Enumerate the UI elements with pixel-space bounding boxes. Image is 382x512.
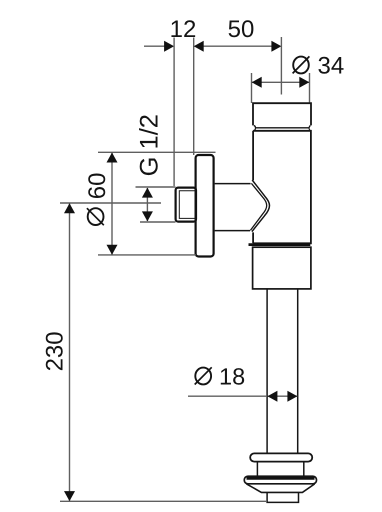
valve body: [253, 131, 311, 244]
arrow d60 down: [107, 245, 118, 255]
outlet collar: [267, 492, 298, 502]
extension line flange bottom: [98, 254, 196, 256]
dim line 230: [69, 203, 71, 501]
arrow G12 up: [142, 188, 153, 198]
flange: [196, 155, 214, 257]
arrow d34 right: [299, 77, 309, 88]
svg-text:34: 34: [318, 53, 345, 80]
extension line thread top: [136, 186, 176, 188]
cap ring lower: [254, 129, 311, 131]
svg-text:230: 230: [41, 331, 68, 371]
arrow d34 left: [252, 77, 262, 88]
dim line 50: [203, 45, 272, 47]
arrow 50 right: [271, 41, 281, 52]
extension line bottom: [60, 500, 267, 502]
spreader cone: [247, 484, 315, 493]
body seam: [249, 243, 311, 246]
spreader neck right: [303, 462, 305, 477]
extension line flange top: [98, 151, 216, 153]
arrow G12 down: [142, 211, 153, 221]
dim line d34: [252, 81, 310, 83]
svg-text:G 1/2: G 1/2: [136, 114, 164, 176]
inlet cap: [253, 103, 311, 125]
arrow 50 left: [194, 41, 204, 52]
cap ring upper: [254, 126, 311, 128]
dim label diameter 34: [293, 53, 345, 80]
spreader ring 1: [250, 453, 312, 461]
outlet pipe left wall: [266, 289, 268, 454]
dim label diameter 18: [195, 364, 245, 390]
thread inner chamfer: [179, 191, 195, 219]
spreader ring 2: [244, 476, 316, 484]
extension line 12 left: [173, 38, 175, 187]
arrow 12: [164, 41, 174, 52]
leader line d18: [188, 395, 267, 397]
junction dome outer: [252, 180, 270, 232]
arrow 230 down: [64, 491, 75, 501]
thread G1/2: [176, 188, 196, 222]
extension line 12 right: [193, 38, 195, 156]
inlet connector top: [215, 183, 251, 185]
lower body: [253, 247, 311, 289]
dim line G12: [146, 188, 148, 221]
spreader ring 2 thick top: [247, 477, 315, 480]
extension line d34 right: [309, 73, 311, 103]
svg-text:18: 18: [219, 364, 245, 390]
inlet connector bottom: [215, 230, 250, 232]
centre line inlet: [280, 37, 282, 95]
junction dome inner: [250, 183, 266, 230]
svg-text:50: 50: [228, 16, 255, 43]
dim label diameter 60: [84, 173, 111, 226]
svg-text:60: 60: [84, 173, 111, 200]
dim line 12: [144, 45, 165, 47]
extension line thread bottom: [140, 221, 176, 223]
outlet pipe right wall: [297, 289, 299, 454]
arrow d60 up: [107, 153, 118, 163]
extension line d34 left: [251, 73, 253, 103]
dim line d60: [111, 152, 113, 255]
dim arrows d18: [268, 395, 298, 397]
arrow 230 up: [64, 203, 75, 213]
centre line left: [60, 202, 161, 204]
spreader neck left: [256, 462, 258, 477]
